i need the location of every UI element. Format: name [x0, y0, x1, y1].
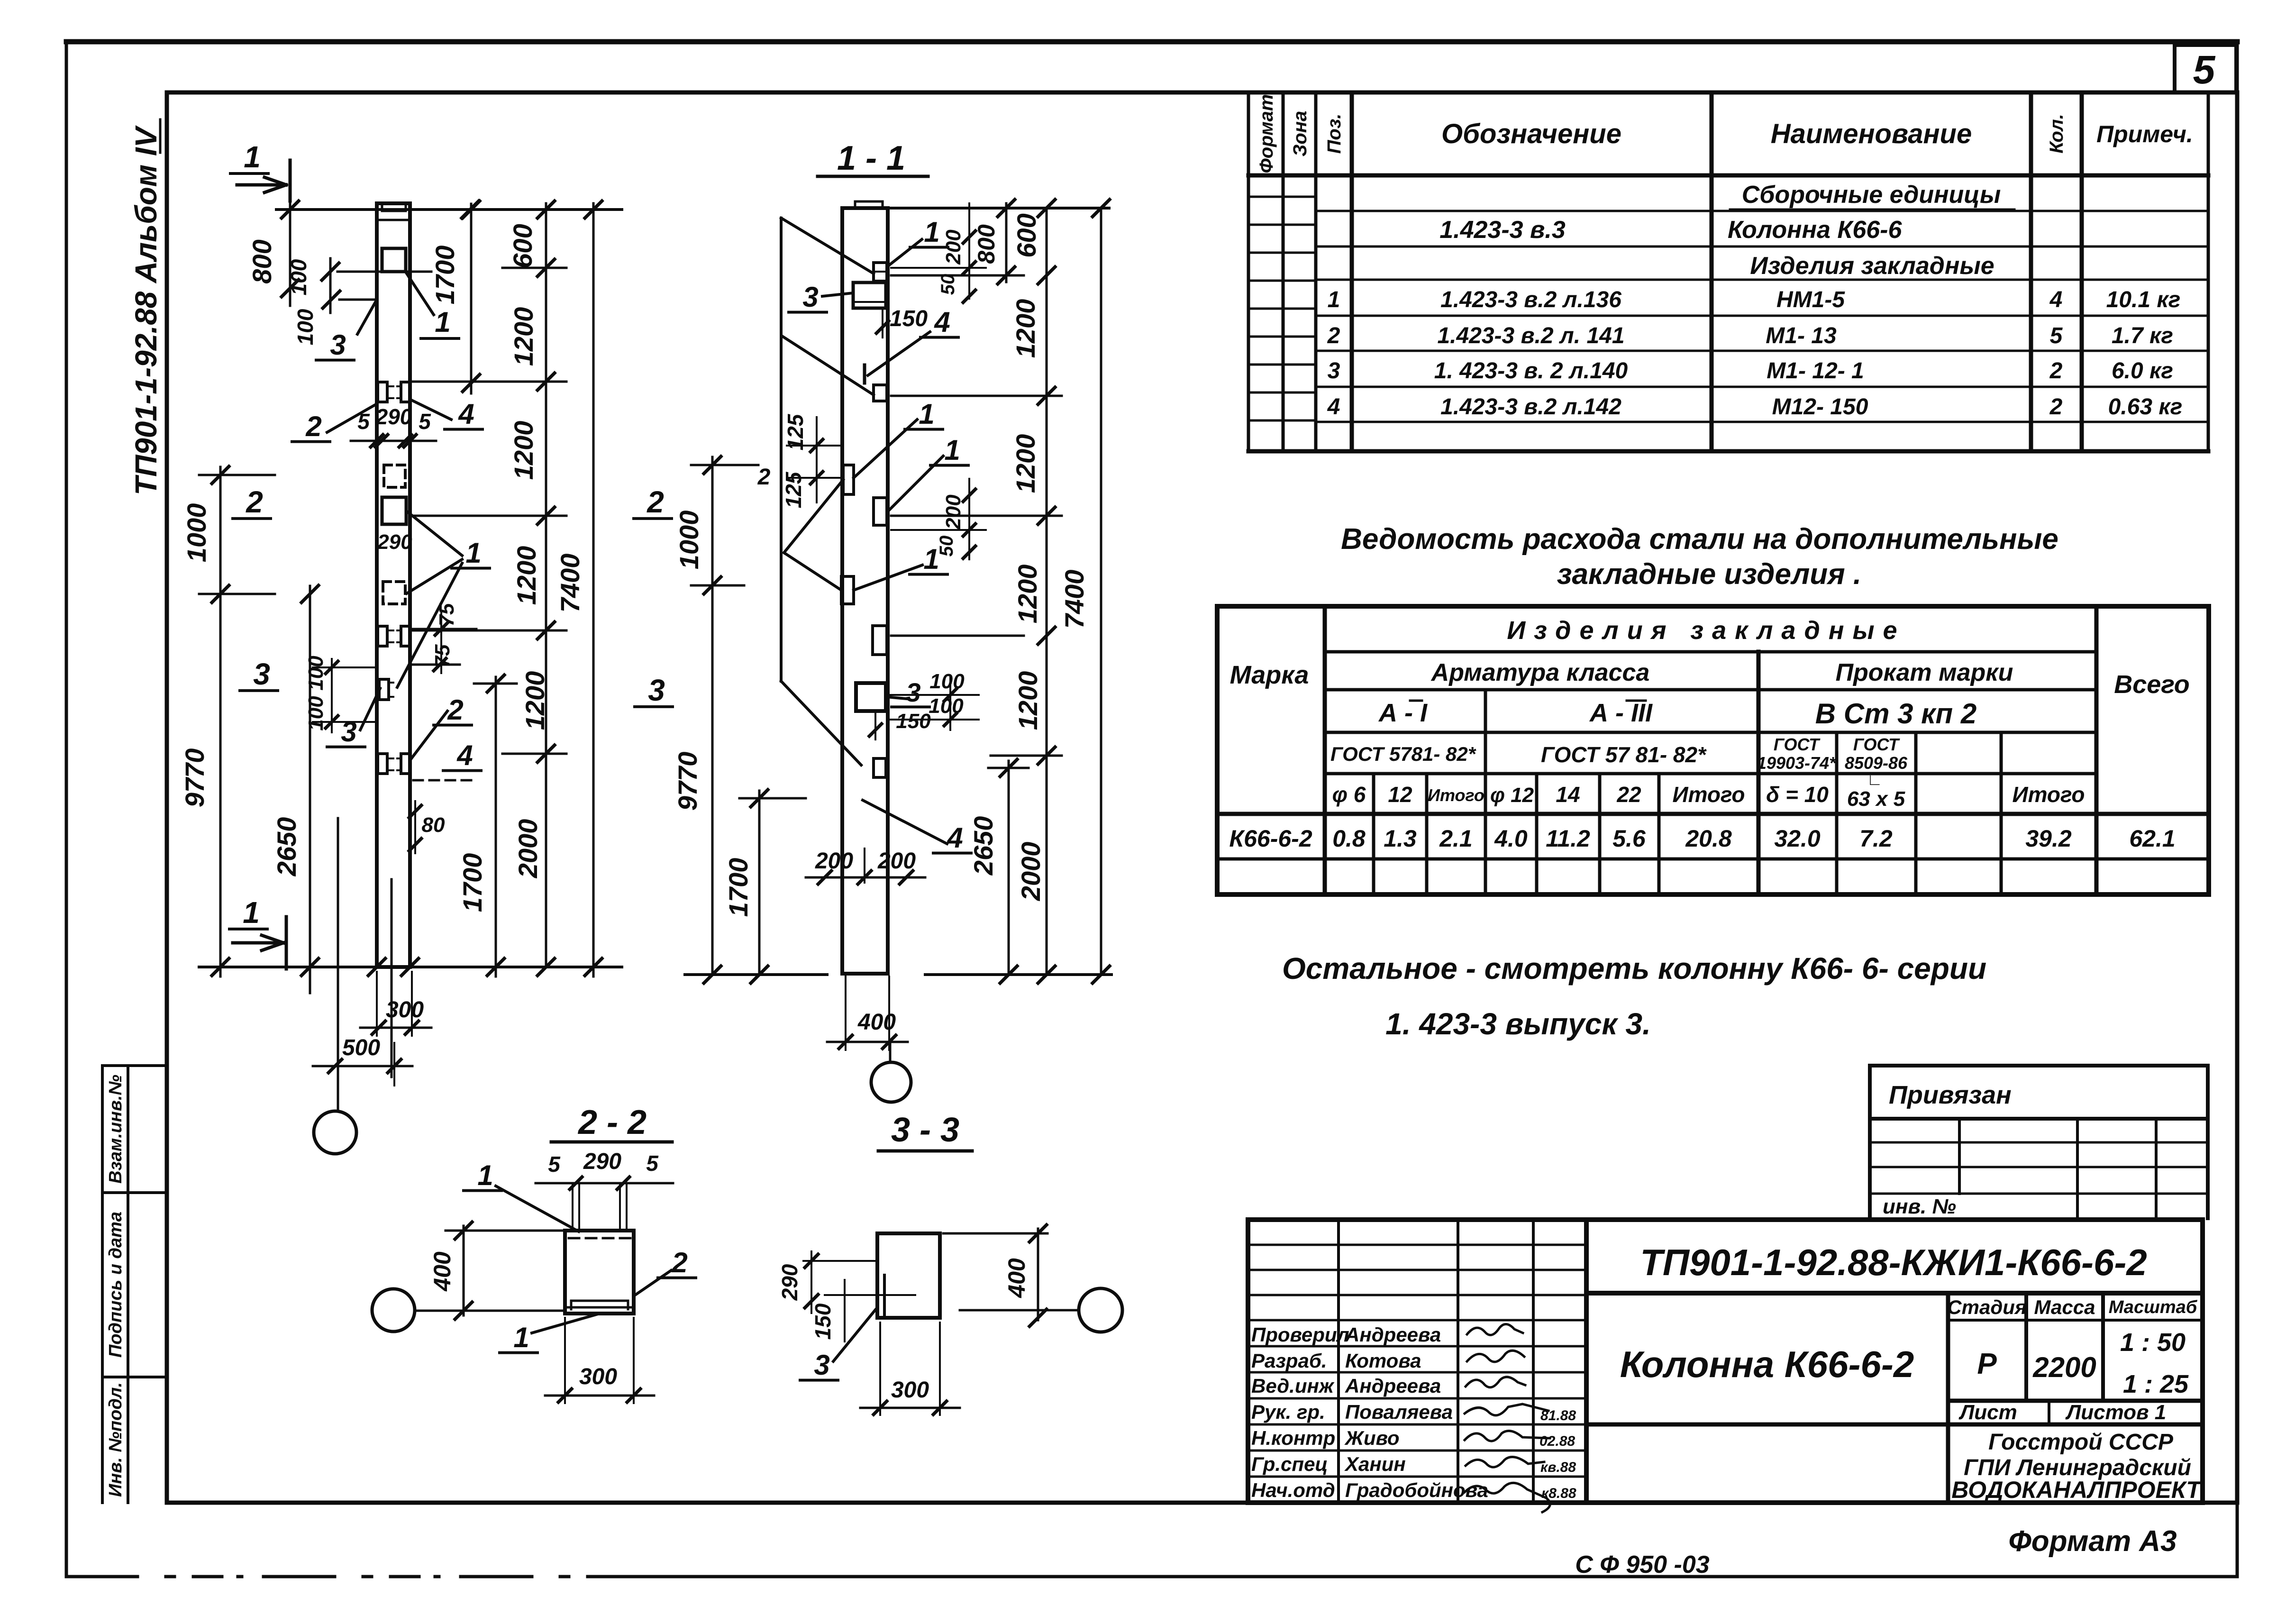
svg-text:2650: 2650	[968, 816, 998, 876]
svg-text:Колонна К66-6-2: Колонна К66-6-2	[1620, 1343, 1914, 1385]
svg-text:1700: 1700	[723, 858, 753, 917]
svg-text:0.8: 0.8	[1332, 825, 1366, 852]
svg-text:Итого: Итого	[2013, 782, 2085, 807]
svg-text:3: 3	[253, 657, 270, 691]
svg-text:Кол.: Кол.	[2046, 114, 2067, 154]
dim 300 below 3-3	[879, 1323, 881, 1415]
overall chain 7400	[592, 203, 595, 976]
svg-text:кв.88: кв.88	[1540, 1460, 1576, 1475]
svg-text:Гр.спец: Гр.спец	[1251, 1453, 1328, 1475]
svg-text:Прокат марки: Прокат марки	[1836, 659, 2013, 686]
svg-text:Изделия закладные: Изделия закладные	[1750, 252, 1994, 280]
plate P7	[841, 576, 854, 604]
svg-text:Сборочные единицы: Сборочные единицы	[1742, 181, 2001, 209]
svg-text:9770: 9770	[180, 748, 209, 808]
svg-text:Изделия закладные: Изделия закладные	[1507, 616, 1905, 645]
svg-text:1. 423-3 в. 2 л.140: 1. 423-3 в. 2 л.140	[1434, 358, 1628, 383]
svg-text:800: 800	[247, 239, 277, 283]
svg-text:3: 3	[341, 716, 356, 748]
svg-text:290: 290	[777, 1264, 802, 1301]
svg-text:400: 400	[1003, 1258, 1030, 1298]
dim 400 below 1-1	[845, 976, 847, 1050]
chain 7400 1-1	[1100, 208, 1102, 975]
svg-text:1.423-3 в.2 л. 141: 1.423-3 в.2 л. 141	[1437, 323, 1624, 348]
svg-text:7.2: 7.2	[1859, 825, 1893, 852]
svg-text:Живо: Живо	[1344, 1427, 1400, 1449]
svg-text:1200: 1200	[1011, 434, 1040, 493]
svg-text:1200: 1200	[511, 546, 541, 605]
signature squiggles	[1465, 1324, 1576, 1512]
svg-text:Инв. №подл.: Инв. №подл.	[106, 1382, 126, 1497]
svg-text:4: 4	[947, 822, 963, 854]
svg-text:2: 2	[447, 694, 463, 726]
svg-text:1 - 1: 1 - 1	[837, 139, 905, 177]
svg-text:300: 300	[386, 997, 424, 1022]
svg-text:Н.контр: Н.контр	[1251, 1427, 1335, 1449]
svg-text:1: 1	[435, 306, 450, 338]
svg-text:5.6: 5.6	[1612, 825, 1646, 852]
svg-text:1200: 1200	[1012, 565, 1042, 624]
svg-text:1200: 1200	[520, 671, 550, 730]
svg-text:Вед.инж: Вед.инж	[1251, 1375, 1335, 1397]
svg-text:1: 1	[513, 1322, 529, 1353]
svg-text:300: 300	[891, 1378, 929, 1403]
svg-text:Наименование: Наименование	[1771, 119, 1972, 149]
right chain 1700 bottom	[495, 677, 497, 976]
shaft 1-1	[842, 208, 888, 974]
svg-text:2000: 2000	[513, 819, 543, 879]
svg-text:Привязан: Привязан	[1889, 1081, 2012, 1109]
svg-text:Подпись и дата: Подпись и дата	[106, 1212, 126, 1358]
svg-text:Андреева: Андреева	[1345, 1323, 1441, 1346]
page number box 5	[2175, 45, 2236, 92]
svg-text:100: 100	[304, 656, 328, 691]
right chain 1700 top	[470, 204, 473, 393]
svg-text:Итого: Итого	[1428, 785, 1484, 805]
svg-text:200: 200	[942, 229, 965, 265]
svg-text:150: 150	[896, 710, 931, 733]
title block grid	[1248, 1220, 2203, 1503]
svg-text:5: 5	[2193, 47, 2216, 92]
dim 400 left 2-2	[463, 1226, 465, 1315]
svg-text:1: 1	[477, 1159, 493, 1191]
svg-text:Всего: Всего	[2114, 670, 2190, 699]
svg-text:63 x 5: 63 x 5	[1847, 787, 1905, 811]
svg-text:125: 125	[781, 471, 806, 508]
plate line inside 3-3	[883, 1275, 886, 1317]
svg-text:Зона: Зона	[1290, 111, 1311, 157]
dim 300 below 2-2	[564, 1318, 566, 1403]
svg-text:150: 150	[811, 1303, 835, 1340]
plate big P2	[853, 283, 886, 308]
svg-text:Ханин: Ханин	[1344, 1453, 1406, 1475]
svg-text:12: 12	[1388, 782, 1412, 807]
dim 500 bottom	[313, 1065, 412, 1067]
steel table grid	[1217, 606, 2209, 894]
svg-text:10.1 кг: 10.1 кг	[2106, 287, 2181, 312]
svg-text:02.88: 02.88	[1539, 1433, 1575, 1449]
svg-text:100: 100	[293, 309, 318, 345]
svg-text:7400: 7400	[555, 554, 585, 613]
svg-text:А - III: А - III	[1589, 699, 1653, 727]
svg-text:Остальное - смотреть колон: Остальное - смотреть колонну К66- 6- сер…	[1282, 951, 1986, 985]
top dimension line	[276, 208, 622, 211]
svg-text:1: 1	[944, 434, 960, 466]
svg-text:φ 6: φ 6	[1332, 782, 1366, 807]
svg-text:Проверил: Проверил	[1251, 1323, 1349, 1346]
svg-text:2: 2	[305, 411, 321, 442]
svg-text:600: 600	[1011, 213, 1041, 257]
plate P9 big	[856, 683, 886, 711]
svg-text:1700: 1700	[457, 853, 487, 912]
dim 400 right 3-3	[1037, 1229, 1039, 1320]
svg-text:3: 3	[802, 281, 818, 313]
svg-text:ТП901-1-92.88-КЖИ1-К66-6-2: ТП901-1-92.88-КЖИ1-К66-6-2	[1640, 1241, 2147, 1283]
svg-text:5: 5	[646, 1151, 659, 1176]
svg-text:2: 2	[757, 465, 771, 490]
svg-text:290: 290	[375, 404, 412, 429]
right main chain 600/1200s	[545, 203, 547, 967]
svg-text:290: 290	[377, 530, 412, 554]
svg-text:2: 2	[671, 1247, 687, 1278]
right main chain 1-1	[1046, 208, 1048, 975]
svg-text:Лист: Лист	[1958, 1401, 2017, 1424]
svg-text:К66-6-2: К66-6-2	[1229, 825, 1312, 852]
svg-text:С Ф 950 -03: С Ф 950 -03	[1575, 1551, 1709, 1578]
specification table grid	[1248, 92, 2208, 451]
svg-text:ГОСТ: ГОСТ	[1774, 735, 1821, 754]
dim 290 150 left 3-3	[811, 1251, 812, 1313]
table2 head А-III	[1627, 700, 1646, 702]
svg-text:14: 14	[1556, 782, 1580, 807]
svg-text:1000: 1000	[182, 503, 211, 563]
svg-text:100: 100	[929, 670, 965, 693]
svg-text:1 : 50: 1 : 50	[2120, 1328, 2186, 1357]
shaft top cap	[382, 203, 406, 211]
svg-text:М1- 12- 1: М1- 12- 1	[1767, 358, 1864, 383]
svg-text:100: 100	[304, 696, 328, 731]
left stamp boxes column	[102, 1066, 167, 1503]
svg-text:НМ1-5: НМ1-5	[1776, 287, 1845, 312]
svg-text:39.2: 39.2	[2025, 825, 2072, 852]
label 1 P1	[889, 239, 922, 265]
svg-text:80: 80	[422, 813, 445, 837]
svg-text:8509-86: 8509-86	[1845, 753, 1908, 773]
svg-text:1.423-3 в.3: 1.423-3 в.3	[1439, 216, 1566, 244]
baseline 1-1	[685, 973, 827, 976]
svg-text:Примеч.: Примеч.	[2096, 121, 2193, 147]
column shaft	[377, 203, 410, 967]
signature rows roles	[1251, 1323, 1488, 1501]
svg-text:4: 4	[934, 306, 950, 338]
svg-text:закладные изделия .: закладные изделия .	[1557, 558, 1861, 591]
inner drawing frame	[167, 92, 2237, 1503]
label 4 and P3	[863, 365, 866, 383]
svg-text:50: 50	[936, 536, 957, 557]
svg-text:1.423-3 в.2 л.136: 1.423-3 в.2 л.136	[1440, 287, 1621, 312]
svg-text:ГОСТ 5781- 82*: ГОСТ 5781- 82*	[1330, 743, 1476, 765]
dim 75 75	[412, 628, 476, 630]
svg-text:1.7 кг: 1.7 кг	[2112, 323, 2173, 348]
svg-text:0.63 кг: 0.63 кг	[2108, 394, 2183, 420]
svg-text:2.1: 2.1	[1439, 825, 1473, 852]
svg-text:1000: 1000	[674, 511, 704, 570]
svg-text:75: 75	[435, 603, 458, 626]
svg-text:1: 1	[1328, 287, 1340, 312]
label 4 for bolt	[412, 401, 451, 420]
dim 800 left chain	[289, 201, 291, 306]
svg-text:Р: Р	[1977, 1348, 1997, 1380]
svg-text:50: 50	[938, 274, 958, 295]
svg-text:2000: 2000	[1016, 842, 1046, 902]
section square 3-3	[877, 1233, 940, 1318]
svg-text:600: 600	[508, 224, 537, 268]
svg-text:2: 2	[246, 485, 263, 519]
svg-text:2200: 2200	[2032, 1351, 2096, 1383]
elevation view: column K66-6-2 front	[180, 140, 622, 1154]
svg-text:2: 2	[1327, 323, 1340, 348]
svg-text:Андреева: Андреева	[1345, 1375, 1441, 1397]
embedded plate solid mid	[382, 497, 406, 524]
svg-text:Ведомость расхода стали н: Ведомость расхода стали на дополнительны…	[1341, 523, 2058, 556]
svg-text:∟: ∟	[1867, 771, 1882, 789]
svg-text:Котова: Котова	[1345, 1350, 1421, 1372]
svg-text:3: 3	[814, 1349, 829, 1381]
section square 2-2	[565, 1231, 634, 1314]
left chain 1000 / 3770	[219, 467, 222, 976]
svg-text:1 : 25: 1 : 25	[2123, 1370, 2189, 1398]
svg-text:1200: 1200	[509, 307, 538, 366]
svg-text:5: 5	[2050, 323, 2063, 348]
svg-text:200: 200	[815, 848, 853, 874]
svg-text:Масштаб: Масштаб	[2109, 1297, 2198, 1317]
svg-text:200: 200	[877, 848, 916, 874]
below-grade axis line	[337, 818, 339, 1111]
svg-text:4.0: 4.0	[1494, 825, 1528, 852]
plate P4	[874, 385, 887, 401]
svg-text:Рук. гр.: Рук. гр.	[1251, 1401, 1325, 1423]
svg-text:3 - 3: 3 - 3	[891, 1111, 959, 1149]
svg-text:М12- 150: М12- 150	[1772, 394, 1868, 420]
svg-text:19903-74*: 19903-74*	[1757, 753, 1837, 773]
svg-text:Формат: Формат	[1256, 94, 1277, 173]
svg-text:1: 1	[465, 537, 481, 569]
svg-text:В Ст 3 кп 2: В Ст 3 кп 2	[1815, 698, 1977, 730]
svg-text:Поваляева: Поваляева	[1345, 1401, 1453, 1423]
label 2 upper	[327, 404, 377, 432]
svg-text:4: 4	[458, 398, 474, 430]
shaft cap 1-1	[855, 201, 883, 208]
embedded plate 3 top (solid)	[382, 248, 406, 272]
svg-text:Взам.инв.№: Взам.инв.№	[106, 1075, 126, 1184]
svg-text:150: 150	[890, 306, 928, 331]
single bolt left (item 3)	[379, 679, 389, 700]
svg-text:ГОСТ 57 81- 82*: ГОСТ 57 81- 82*	[1541, 742, 1707, 767]
axis circle 3-3	[960, 1309, 1079, 1312]
svg-text:3: 3	[330, 329, 346, 361]
plate P5	[843, 465, 854, 494]
svg-text:инв. №: инв. №	[1883, 1195, 1956, 1218]
svg-text:1200: 1200	[1013, 671, 1043, 730]
svg-text:5: 5	[548, 1152, 561, 1177]
svg-text:7400: 7400	[1059, 570, 1089, 629]
svg-text:Разраб.: Разраб.	[1251, 1350, 1327, 1372]
svg-text:200: 200	[942, 494, 965, 530]
svg-text:к8.88: к8.88	[1541, 1486, 1576, 1501]
svg-text:1.423-3 в.2 л.142: 1.423-3 в.2 л.142	[1440, 394, 1621, 420]
svg-text:Арматура класса: Арматура класса	[1430, 659, 1650, 686]
label 3 P2	[822, 293, 853, 296]
svg-text:62.1: 62.1	[2129, 825, 2175, 852]
svg-text:ГОСТ: ГОСТ	[1853, 735, 1900, 754]
leader and label 3 top	[357, 300, 377, 334]
anchor bolts pair lower (item 2)	[378, 754, 387, 774]
svg-text:3: 3	[648, 673, 665, 707]
section 1-1 view	[634, 139, 1111, 1102]
chain 2650	[309, 586, 311, 993]
svg-text:Стадия: Стадия	[1947, 1296, 2026, 1318]
svg-text:Госстрой СССР: Госстрой СССР	[1988, 1430, 2174, 1455]
embedded plate dashed mid2	[383, 582, 405, 604]
svg-text:А - I: А - I	[1378, 699, 1428, 727]
svg-text:2 - 2: 2 - 2	[577, 1104, 647, 1141]
left chain 1000/3770 of 1-1	[711, 457, 714, 975]
plate P8	[873, 626, 887, 655]
svg-text:22: 22	[1616, 782, 1641, 807]
svg-text:75: 75	[431, 644, 454, 667]
svg-text:11.2: 11.2	[1546, 825, 1590, 852]
svg-text:1.3: 1.3	[1384, 825, 1417, 852]
fan crossing leaders	[784, 480, 843, 553]
dim 80	[414, 801, 416, 853]
svg-text:Нач.отд: Нач.отд	[1251, 1479, 1335, 1501]
svg-text:4: 4	[1327, 394, 1340, 420]
svg-text:Марка: Марка	[1230, 661, 1309, 689]
leader and label 1 top	[407, 274, 434, 315]
axis circle 2-2	[372, 1289, 415, 1332]
svg-text:100: 100	[286, 259, 311, 295]
plate right top P1	[874, 263, 887, 281]
svg-text:1200: 1200	[509, 421, 538, 480]
svg-text:ВОДОКАНАЛПРОЕКТ: ВОДОКАНАЛПРОЕКТ	[1951, 1477, 2203, 1503]
dim 100 100 top left	[337, 271, 431, 273]
svg-text:Обозначение: Обозначение	[1441, 119, 1621, 149]
svg-text:1: 1	[924, 216, 939, 248]
svg-text:Колонна К66-6: Колонна К66-6	[1728, 216, 1902, 244]
svg-text:32.0: 32.0	[1774, 825, 1821, 852]
svg-text:1: 1	[243, 895, 260, 930]
label 3 lower	[360, 688, 380, 730]
axis circle 1-1	[889, 1042, 892, 1062]
svg-text:Формат А3: Формат А3	[2008, 1525, 2177, 1558]
svg-text:2: 2	[2049, 394, 2063, 420]
svg-text:290: 290	[583, 1149, 621, 1174]
section plane strip	[780, 218, 783, 681]
anchor bolts pair upper (item 2)	[378, 382, 387, 402]
table2 head А-I	[1410, 700, 1422, 702]
svg-text:Листов 1: Листов 1	[2065, 1401, 2166, 1424]
svg-text:2: 2	[2049, 358, 2063, 383]
svg-text:Итого: Итого	[1673, 782, 1745, 807]
svg-text:300: 300	[579, 1364, 617, 1389]
dim 100 100 left	[331, 659, 333, 732]
baseline of elevation	[199, 966, 622, 968]
plate P10	[874, 758, 886, 777]
svg-text:1: 1	[244, 140, 261, 174]
svg-text:5: 5	[419, 409, 431, 434]
svg-text:1200: 1200	[1011, 299, 1040, 358]
svg-text:4: 4	[456, 739, 473, 771]
svg-text:1. 423-3 выпуск 3.: 1. 423-3 выпуск 3.	[1385, 1007, 1651, 1041]
svg-text:Поз.: Поз.	[1324, 114, 1345, 154]
svg-text:9770: 9770	[673, 752, 702, 811]
svg-text:3: 3	[1328, 358, 1340, 383]
svg-text:3: 3	[906, 677, 920, 707]
svg-text:20.8: 20.8	[1685, 825, 1732, 852]
label 2 lower	[411, 711, 447, 758]
top dim line 1-1	[888, 207, 1109, 210]
svg-text:φ 12: φ 12	[1490, 784, 1534, 807]
svg-text:6.0 кг: 6.0 кг	[2112, 358, 2173, 383]
privyazan box	[1870, 1066, 2208, 1218]
section 3-3 detail	[777, 1111, 1122, 1415]
chain 2650 1-1	[1008, 761, 1010, 975]
embedded plate dashed mid1	[384, 465, 405, 487]
svg-text:1700: 1700	[430, 246, 460, 305]
svg-text:400: 400	[857, 1010, 896, 1035]
svg-text:2: 2	[647, 485, 664, 519]
chain 1700 bottom 1-1	[758, 791, 761, 975]
anchor bolts pair mid (item 2)	[378, 626, 387, 646]
label 4 lower with dashed leader	[413, 779, 478, 782]
svg-text:4: 4	[2049, 287, 2063, 312]
svg-text:400: 400	[429, 1251, 455, 1292]
svg-text:81.88: 81.88	[1540, 1408, 1576, 1423]
svg-text:500: 500	[342, 1035, 380, 1060]
svg-text:δ = 10: δ = 10	[1766, 782, 1829, 807]
dim 300 bottom	[376, 972, 378, 1036]
svg-text:ТП901-1-92.88 Альбом IV: ТП901-1-92.88 Альбом IV	[129, 125, 163, 495]
svg-text:М1- 13: М1- 13	[1766, 323, 1837, 348]
svg-text:1: 1	[919, 398, 934, 430]
plate P6	[874, 498, 887, 525]
svg-text:Масса: Масса	[2034, 1296, 2095, 1318]
svg-text:2650: 2650	[272, 817, 301, 877]
section 2-2 detail	[372, 1104, 696, 1403]
axis circle left column	[314, 1111, 356, 1154]
